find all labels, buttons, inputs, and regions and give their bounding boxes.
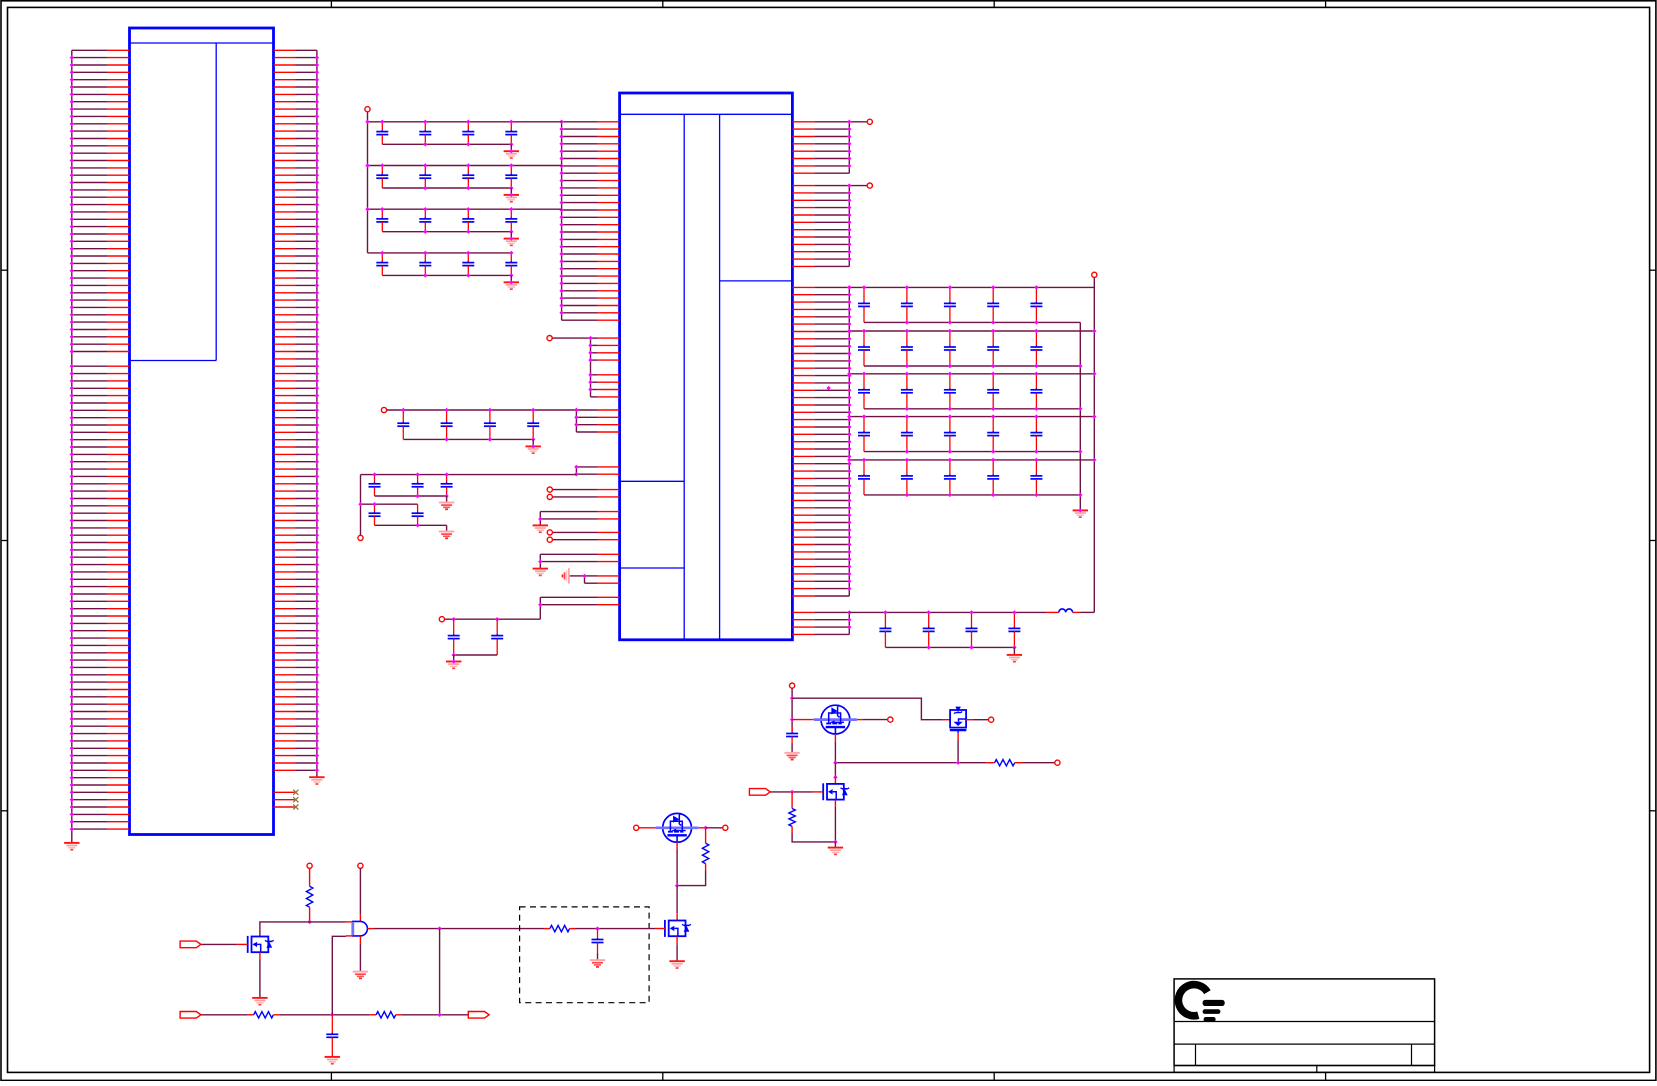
transistor Q1 [814, 705, 857, 734]
junction dots group D [574, 465, 578, 477]
ground mid row [526, 446, 541, 453]
capacitor C34 [505, 209, 517, 232]
ground C_Q1 [784, 753, 799, 760]
wire bus group H [584, 576, 586, 583]
wire C_S gnd stem [597, 954, 599, 961]
wire cap row 2 gnd stem [510, 188, 512, 195]
wire gate input net [260, 922, 346, 937]
port P_bank [365, 107, 370, 112]
junction dots R4 [847, 610, 851, 629]
inductor L1 [1046, 609, 1081, 612]
resistor R_G1 [309, 868, 311, 886]
capacitor CR33 [944, 374, 956, 409]
ground Q3 [828, 848, 843, 855]
wire to rotated ground [569, 575, 584, 577]
wire port to bus B [552, 337, 590, 339]
wire Q1 to port [863, 719, 888, 721]
ground left bus [64, 843, 79, 850]
capacitor CR12 [901, 287, 913, 322]
connector J1 body [130, 28, 274, 835]
wire mid row top [387, 409, 577, 411]
capacitor CA1 [369, 475, 381, 496]
transistor Q2 [950, 707, 967, 733]
ground cap row 2 [504, 195, 519, 202]
wire Q4 source down [676, 842, 678, 849]
junction dots cap row 1 [365, 120, 513, 147]
junction dots array row 1 [847, 285, 1039, 324]
capacitor C_S [592, 929, 604, 954]
transistor Q4 [656, 813, 699, 842]
port P_mid [381, 407, 386, 412]
IC U1 left pins group B [591, 338, 620, 397]
wire array row 2 top [849, 330, 1094, 332]
wire Q5 gate stub [655, 928, 665, 930]
junction dot group F [538, 517, 542, 521]
capacitor CR41 [858, 417, 870, 452]
capacitor CA2 [412, 475, 424, 496]
capacitor CR34 [987, 374, 999, 409]
junction dot stray [826, 386, 830, 390]
wire LC gnd stem [1013, 647, 1015, 655]
wire ground rail [1079, 322, 1081, 510]
AND gate U2 [353, 921, 368, 936]
wire cluster rowB bottom [375, 524, 447, 526]
port P_Q4d [723, 825, 728, 830]
wire Q4 to port [706, 827, 723, 829]
junction dot I2 [495, 617, 499, 621]
port P_R2 [867, 183, 872, 188]
ground Q6 [252, 998, 267, 1005]
wire array row 4 top [849, 416, 1094, 418]
wire gate net [770, 791, 812, 793]
wire cap bank feed bus [367, 112, 369, 253]
wire R2 port [849, 185, 867, 187]
capacitor CR42 [901, 417, 913, 452]
capacitor C11 [376, 122, 388, 145]
wire array row 1 top [849, 286, 1094, 288]
capacitor CR25 [1030, 331, 1042, 366]
wire cap row 2 top [368, 165, 562, 167]
junction dots group B [588, 336, 592, 392]
capacitor CR55 [1030, 460, 1042, 495]
ground group F [533, 525, 548, 532]
snubber dashed box [520, 907, 650, 1003]
capacitor CA3 [441, 475, 453, 496]
wire C_Q1 gnd stem [791, 744, 793, 753]
wire bus group C [575, 410, 577, 432]
wire rowB gnd stem [446, 525, 448, 531]
ground AND [353, 972, 368, 979]
wire bottom net 1 [201, 1014, 248, 1016]
capacitor C14 [505, 122, 517, 145]
wire mid row gnd stem [532, 439, 534, 446]
port P_G2 [358, 863, 363, 868]
capacitor CR24 [987, 331, 999, 366]
capacitor CL1 [879, 612, 891, 647]
capacitor CL3 [966, 612, 978, 647]
ground C_B1 [325, 1057, 340, 1064]
junction dot group H [582, 574, 586, 578]
IC U1 left pins group G [540, 554, 619, 561]
capacitor CR51 [858, 460, 870, 495]
port P_R1 [867, 119, 872, 124]
capacitor CR53 [944, 460, 956, 495]
wire bus group D [575, 467, 577, 474]
wire cap row 1 top [368, 121, 562, 123]
ground array [1073, 510, 1088, 517]
capacitor CR23 [944, 331, 956, 366]
junction dots group C [574, 408, 578, 427]
IC U1 left pins group D [576, 467, 619, 474]
ground right bus [309, 777, 324, 784]
capacitor CR35 [1030, 374, 1042, 409]
wire Q2 to port [973, 719, 989, 721]
wire Q3 gate stub [812, 791, 823, 793]
capacitor C13 [462, 122, 474, 145]
capacitor CB1 [369, 504, 381, 525]
wire Q3 source down [834, 800, 836, 807]
connector J1 right pins [274, 50, 317, 770]
transistor Q3 [823, 783, 849, 800]
wire bus group F [539, 512, 541, 526]
capacitor CR52 [901, 460, 913, 495]
wire bottom net 3 [402, 1014, 469, 1016]
wire cluster rowA top [361, 474, 577, 476]
wire Q1 net vertical [791, 688, 793, 726]
wire AND gnd [359, 943, 361, 971]
wire Q1 source down [834, 734, 836, 742]
junction dot q1b [790, 717, 794, 721]
IC U1 body [620, 93, 793, 640]
wire group I horizontal [445, 618, 541, 620]
wire inductor to rail [1080, 611, 1094, 613]
wire array row 3 top [849, 373, 1094, 375]
wire cap row 3 bottom [382, 231, 511, 233]
capacitor C44 [505, 253, 517, 276]
wire source net [835, 762, 986, 764]
wire Q3 drain stub [834, 777, 836, 784]
port P_Q4g [634, 825, 639, 830]
resistor R_S [544, 928, 550, 930]
wire cap row 1 bottom [382, 143, 511, 145]
wire cluster bus [360, 475, 362, 536]
connector J1 left pins [72, 50, 130, 829]
wire supply rail [1093, 277, 1095, 612]
wire AND vcc [359, 868, 361, 914]
wire cap row 3 gnd stem [510, 232, 512, 239]
capacitor C43 [462, 253, 474, 276]
ground cap row 4 [504, 282, 519, 289]
wire Q6 gate net [201, 943, 237, 945]
wire cluster rowB top [361, 503, 418, 505]
wire AND vcc stub [359, 914, 361, 921]
capacitor CM3 [484, 410, 496, 439]
logo mark [1178, 985, 1224, 1022]
output flag F_OUT [468, 1012, 489, 1019]
IC U1 left pins group A [562, 122, 620, 320]
IC U1 right pins group R1 [792, 122, 849, 173]
IC U1 left pins group I [540, 597, 619, 604]
ground cap row 3 [504, 239, 519, 246]
junction dots R2 [847, 183, 851, 261]
junction dot group I [538, 603, 542, 607]
wire R1 port [849, 121, 867, 123]
wire Q5 drain stub [676, 913, 678, 920]
wire bus R3 [848, 287, 850, 596]
wire array row 4 bottom [864, 451, 1080, 453]
IC U1 left pins group C [576, 410, 619, 432]
capacitor C33 [462, 209, 474, 232]
capacitor CR43 [944, 417, 956, 452]
junction dot g1 [307, 920, 311, 924]
wire cluster rowA bottom [375, 495, 447, 497]
wire AND in2 riser [332, 936, 346, 1015]
junction dot I3 [452, 653, 456, 657]
wire AND in2 stub [346, 935, 353, 937]
wire down to Q3 [834, 763, 836, 778]
junction dot group G [538, 559, 542, 563]
junction dots cluster rowA [372, 472, 449, 498]
capacitor CL4 [1008, 612, 1020, 647]
junction dot qs1 [833, 761, 837, 765]
port P_E3 [547, 530, 552, 535]
junction dots LC row [883, 610, 1016, 649]
junction dots mid row [401, 408, 579, 442]
junction dot q3g [790, 790, 794, 794]
wire array row 1 bottom [864, 321, 1080, 323]
port P_RQ [1055, 760, 1060, 765]
wire R_Q to port [1023, 762, 1055, 764]
junction dots cap row 3 [365, 207, 513, 234]
junction dots array row 5 [847, 458, 1096, 497]
capacitor CR22 [901, 331, 913, 366]
capacitor CR15 [1030, 287, 1042, 322]
resistor R_B1 [248, 1014, 254, 1016]
ground cap row 1 [504, 151, 519, 158]
wire LC row [849, 611, 1045, 613]
capacitor CI1 [448, 619, 460, 655]
ground rowB [439, 532, 454, 539]
junction dots right bus [315, 55, 319, 772]
wire to Q2 gate [792, 698, 943, 720]
capacitor C12 [419, 122, 431, 145]
junction dots cap row 2 [365, 163, 513, 190]
port P_Q1d [888, 717, 893, 722]
wire Q1 right stub [857, 719, 863, 721]
IC U1 right pins group R2 [792, 186, 849, 267]
wire array row 5 top [849, 459, 1094, 461]
wire R_S to gate [576, 928, 656, 930]
capacitor CL2 [923, 612, 935, 647]
ground LC row [1007, 655, 1022, 662]
input flag F_Q6 [180, 941, 201, 948]
wire bus group I [539, 597, 541, 619]
capacitor CR14 [987, 287, 999, 322]
IC U1 right pins group R3 [792, 287, 849, 596]
junction dot b2 [437, 1013, 441, 1017]
wire Q2 source down [957, 733, 959, 741]
capacitor CR54 [987, 460, 999, 495]
capacitor C32 [419, 209, 431, 232]
junction dot q3t [833, 775, 837, 779]
wire bus R1 [848, 122, 850, 173]
wire AND out stub [368, 928, 375, 930]
junction dot qs2 [956, 761, 960, 765]
capacitor CR31 [858, 374, 870, 409]
junction dots cluster rowB [358, 502, 420, 528]
ground rowA [439, 503, 454, 510]
junction dots array row 2 [847, 329, 1096, 368]
wire Q2 right stub [966, 719, 973, 721]
wire bottom net 2 [279, 1014, 370, 1016]
port P_E1 [547, 487, 552, 492]
transistor Q5 [665, 920, 691, 937]
IC U1 left pins group F [540, 512, 619, 519]
capacitor CM1 [397, 410, 409, 439]
wire Q6 gate stub [237, 943, 248, 945]
capacitor CB2 [412, 504, 424, 525]
wire AND output net [375, 928, 545, 930]
wire array row 2 bottom [864, 365, 1080, 367]
junction dots group A [559, 120, 563, 315]
capacitor C_B1 [326, 1015, 338, 1057]
capacitor CM4 [527, 410, 539, 439]
port P_Q2d [989, 717, 994, 722]
resistor R_Q out [986, 762, 995, 764]
IC U1 right pins group R4 [792, 612, 849, 634]
junction dot q1a [790, 696, 794, 700]
junction dot q3s [833, 840, 837, 844]
junction dot I1 [452, 617, 456, 621]
input flag F_Q3 [749, 789, 770, 796]
wire Q1 gate stub [792, 719, 814, 721]
junction dot q4s [675, 883, 679, 887]
capacitor C22 [419, 166, 431, 189]
capacitor C31 [376, 209, 388, 232]
junction dots left bus [70, 55, 74, 831]
capacitor CI2 [491, 619, 503, 655]
junction dots array row 3 [847, 372, 1096, 411]
port P_I [439, 617, 444, 622]
wire cap row 1 gnd stem [510, 144, 512, 151]
port P_B [547, 336, 552, 341]
wire array row 3 bottom [864, 408, 1080, 410]
resistor R_Q4 [705, 828, 707, 843]
title block [1174, 979, 1435, 1073]
wire cap row 4 gnd stem [510, 275, 512, 282]
port P_rail [1092, 272, 1097, 277]
wire cap row 4 bottom [382, 274, 511, 276]
wire CI bottom [454, 654, 498, 656]
wire Q4 to Q5 [676, 886, 678, 914]
wire Q5 source down [676, 936, 678, 944]
wire AND gnd stub [359, 936, 361, 943]
IC U1 left port pins group E [552, 490, 619, 540]
wire rowA gnd stem [446, 496, 448, 503]
IC U1 left pins group H [585, 576, 620, 583]
wire Q4 gate stub [639, 827, 656, 829]
junction dots cap row 4 [380, 251, 513, 278]
transistor Q6 [248, 936, 274, 953]
wire AND in1 stub [346, 921, 353, 923]
wire right pin bus [316, 50, 318, 777]
ground C_S [590, 960, 605, 967]
capacitor C41 [376, 253, 388, 276]
junction dot q4d [703, 826, 707, 830]
capacitor CR44 [987, 417, 999, 452]
port P_cl [358, 535, 363, 540]
resistor R_B2 [370, 1014, 376, 1016]
ground CI [446, 662, 461, 669]
capacitor CM2 [441, 410, 453, 439]
wire bus R4 [848, 612, 850, 634]
resistor R_Q3g [791, 792, 793, 809]
wire CI ground stem [453, 655, 455, 662]
wire Q2 gate stub [943, 719, 950, 721]
wire left pin bus [71, 50, 73, 843]
no-connect pins J1 [274, 790, 299, 810]
wire array row 5 bottom [864, 494, 1080, 496]
wire cap row 4 top [368, 252, 512, 254]
wire cap row 2 bottom [382, 187, 511, 189]
wire cap row 3 top [368, 208, 562, 210]
port P_E4 [547, 537, 552, 542]
junction dots array row 4 [847, 414, 1096, 453]
capacitor CR21 [858, 331, 870, 366]
ground rotated group H [563, 568, 569, 583]
wire bus group B [590, 338, 592, 397]
wire bus group A [561, 122, 563, 320]
capacitor C21 [376, 166, 388, 189]
wire feedback vertical [439, 929, 441, 1015]
junction dots R3 [847, 285, 851, 591]
capacitor C_Q1 [791, 727, 793, 732]
ground Q5 [669, 961, 684, 968]
capacitor CR45 [1030, 417, 1042, 452]
junction dot out1 [437, 926, 441, 930]
ground group G [533, 569, 548, 576]
capacitor CR13 [944, 287, 956, 322]
wire LC row bottom [885, 646, 1014, 648]
wire bus group G [539, 554, 541, 568]
capacitor C23 [462, 166, 474, 189]
junction dot b1 [330, 1013, 334, 1017]
wire mid row bottom [403, 438, 533, 440]
wire Q6 source down [259, 952, 261, 959]
capacitor C24 [505, 166, 517, 189]
wire Q4 right stub [699, 827, 706, 829]
junction dot s1 [595, 926, 599, 930]
wire R_Q3g down [791, 826, 793, 833]
port P_E2 [547, 494, 552, 499]
capacitor CR11 [858, 287, 870, 322]
capacitor C42 [419, 253, 431, 276]
junction dots R1 [847, 120, 851, 168]
wire R_Q4 down [705, 864, 707, 871]
capacitor CR32 [901, 374, 913, 409]
port P_G1 [307, 863, 312, 868]
wire bus R2 [848, 186, 850, 267]
wire q3 gnd stem [834, 842, 836, 848]
input flag F_B [180, 1012, 201, 1019]
port P_Q1 [790, 683, 795, 688]
